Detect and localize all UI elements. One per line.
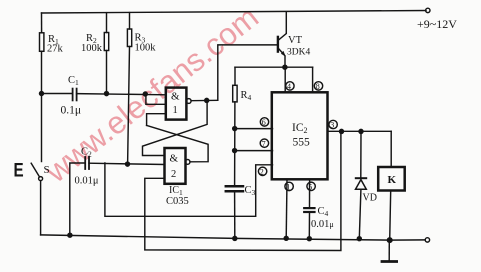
node pin6 dot	[233, 127, 237, 131]
wire pin8 drop	[312, 67, 314, 92]
svg-text:555: 555	[293, 137, 311, 149]
svg-text:VT: VT	[288, 35, 303, 46]
gate IC1b box	[165, 148, 186, 184]
svg-text:7: 7	[262, 139, 266, 148]
pin 2 wire	[105, 163, 273, 216]
label IC1	[166, 185, 189, 207]
pin 3	[329, 120, 337, 128]
op-amp IC2 555 box	[272, 92, 328, 179]
wire C3 bottom	[234, 192, 236, 238]
svg-text:1: 1	[173, 105, 178, 116]
svg-text:C3: C3	[245, 185, 256, 197]
wire gate2 stub3 to lower rail	[145, 132, 341, 251]
node pin3 branch dot	[340, 129, 344, 133]
diode VD	[360, 131, 362, 177]
svg-text:VD: VD	[363, 193, 377, 204]
switch S	[39, 177, 43, 181]
resistor R1	[40, 33, 44, 52]
node C3 gnd dot	[233, 236, 237, 240]
pin 7	[260, 139, 268, 147]
svg-text:27k: 27k	[47, 44, 64, 55]
node VD top dot	[359, 129, 363, 133]
svg-text:2: 2	[171, 169, 176, 180]
transistor collector	[279, 13, 287, 41]
svg-text:2: 2	[260, 167, 264, 176]
pin 4	[286, 82, 294, 90]
relay K box	[378, 167, 405, 191]
node emitter dot	[283, 65, 287, 69]
wire pin4 drop	[284, 67, 286, 92]
svg-text:0.01μ: 0.01μ	[311, 219, 334, 230]
gate1 output bubble	[186, 99, 191, 104]
wire R4 bottom column to C3	[234, 102, 236, 185]
svg-text:&: &	[170, 153, 179, 165]
wire pin5 to C4	[309, 179, 311, 207]
wire cross D1 from gate2 out to gate1	[147, 125, 209, 161]
watermark elecfans.com	[38, 0, 265, 190]
svg-text:3DK4: 3DK4	[287, 48, 310, 58]
emitter arrow	[281, 51, 286, 57]
terminal +V	[426, 8, 430, 12]
svg-text:100k: 100k	[81, 43, 103, 54]
wire top supply rail	[42, 11, 427, 14]
wire ground rail	[41, 235, 426, 240]
wire R1 column top	[41, 13, 43, 33]
pin 2	[258, 167, 266, 175]
wire R2 column top	[106, 13, 108, 33]
gate2 output bubble	[185, 160, 190, 165]
node +9~12V label	[417, 17, 457, 31]
node gate1 input dot	[143, 92, 147, 96]
svg-text:0.1μ: 0.1μ	[61, 105, 82, 117]
pin 6	[260, 118, 268, 126]
svg-text:&: &	[171, 91, 180, 103]
svg-text:6: 6	[262, 118, 266, 127]
node R2/C1 dot	[105, 92, 109, 96]
node C2 gnd dot	[68, 233, 72, 237]
wire K top	[390, 131, 392, 167]
svg-text:C035: C035	[166, 196, 189, 207]
node K gnd dot	[387, 238, 392, 243]
svg-text:S: S	[44, 164, 50, 176]
wire K bottom	[390, 191, 391, 241]
wire R2 bottom	[106, 51, 108, 94]
node gate1 out dot	[205, 98, 209, 102]
wire pin1 to ground rail	[285, 179, 288, 238]
svg-text:IC2: IC2	[292, 122, 308, 135]
wire C4 bottom	[308, 213, 310, 239]
svg-text:C2: C2	[81, 147, 92, 159]
node pin1 gnd dot	[284, 236, 288, 240]
capacitor C1	[72, 89, 74, 101]
wire cross D2 from gate1 out to gate2 in	[143, 100, 208, 155]
svg-text:+9~12V: +9~12V	[417, 17, 457, 31]
pin 7 wire	[235, 150, 273, 152]
svg-text:100k: 100k	[135, 43, 157, 54]
resistor R3	[127, 29, 131, 47]
node pin7 dot	[233, 149, 237, 153]
terminal output	[425, 238, 429, 242]
wire C2 right to gate2	[89, 163, 165, 164]
wire Vcc local rail y67	[235, 66, 313, 68]
wire R1 bottom to switch	[41, 51, 43, 161]
resistor R4	[233, 85, 237, 102]
wire C2 left to ground column	[70, 163, 85, 235]
wire R3 column top	[129, 13, 131, 29]
node R3/C2 dot	[126, 162, 130, 166]
pin 1	[285, 182, 293, 190]
svg-text:R4: R4	[241, 90, 252, 102]
svg-text:8: 8	[316, 82, 320, 91]
svg-text:3: 3	[330, 121, 334, 130]
transistor VT base bar	[277, 37, 279, 52]
pin 6 wire	[235, 128, 273, 130]
wire C1 right to gate1	[77, 94, 166, 95]
svg-text:4: 4	[287, 82, 291, 91]
wire switch bottom	[40, 181, 42, 235]
capacitor C3	[226, 185, 243, 188]
wire gate1 input B loop	[146, 94, 166, 104]
svg-text:0.01μ: 0.01μ	[75, 176, 99, 187]
pin 5	[307, 182, 315, 190]
transistor emitter	[279, 49, 286, 68]
svg-text:C1: C1	[68, 75, 79, 87]
svg-text:E: E	[14, 159, 24, 181]
capacitor C4	[304, 207, 314, 209]
ground symbol	[388, 240, 390, 261]
wire to R4 top	[234, 67, 236, 85]
pin 8	[314, 82, 322, 90]
wire base drive up	[218, 45, 277, 100]
wire gate1 output	[191, 99, 218, 101]
pin 3 wire	[328, 130, 392, 132]
svg-text:C4: C4	[318, 206, 329, 218]
svg-text:K: K	[388, 174, 397, 186]
wire C1 left	[42, 93, 73, 95]
node C1 tap dot	[40, 92, 44, 96]
wire R3 bottom crosses C1 line to C2 line	[128, 47, 130, 165]
node VD gnd dot	[357, 237, 361, 241]
capacitor C2	[84, 157, 86, 169]
wire gate1 input C stub	[147, 114, 166, 126]
gate IC1a box	[166, 88, 187, 120]
node C4 gnd dot	[307, 237, 311, 241]
resistor R2	[104, 33, 108, 51]
